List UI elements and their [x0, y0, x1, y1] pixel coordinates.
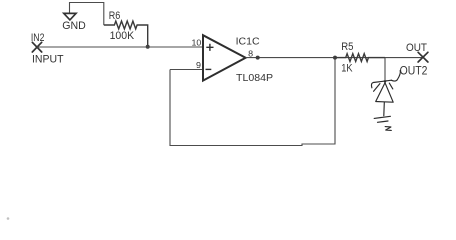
zener diode cathode bar (hand-drawn)	[371, 80, 391, 88]
stray faint mark bottom-left	[7, 217, 10, 220]
ground GND symbol	[64, 13, 76, 20]
pad X OUT	[418, 52, 428, 62]
wire drop to zener diode	[384, 58, 386, 81]
svg-text:R6: R6	[109, 10, 121, 22]
svg-text:100K: 100K	[110, 30, 135, 42]
ground sketch stroke 2	[378, 121, 389, 122]
wire feedback loop (pin 9 down, across, up to output)	[170, 58, 335, 146]
resistor R6	[104, 21, 148, 47]
zener stub wire to OUT2 (hand-drawn)	[391, 70, 400, 81]
wire op-amp pin 9 stub	[170, 69, 203, 71]
svg-text:R5: R5	[341, 41, 353, 53]
junction node (R6 to input wire)	[146, 45, 150, 49]
junction node at pin 8	[256, 56, 260, 60]
svg-text:10: 10	[192, 38, 202, 48]
svg-text:GND: GND	[62, 20, 86, 32]
op-amp IC1C triangle	[203, 35, 246, 80]
op-amp plus input symbol	[206, 44, 213, 51]
svg-text:TL084P: TL084P	[236, 72, 273, 84]
ground sketch stroke 1	[374, 116, 390, 118]
pad X IN2	[32, 42, 41, 52]
wire input net from IN2 to op-amp pin 10	[37, 46, 203, 48]
resistor R5	[335, 54, 385, 62]
wire from GND symbol up and over to R6 left terminal	[70, 3, 104, 26]
junction node at feedback tap	[333, 56, 337, 60]
svg-text:IN2: IN2	[31, 32, 45, 44]
svg-text:INPUT: INPUT	[32, 54, 64, 66]
svg-text:OUT2: OUT2	[400, 66, 428, 78]
svg-text:IC1C: IC1C	[236, 36, 260, 48]
wire output net from pin 8 to OUT pad	[246, 57, 423, 59]
svg-text:9: 9	[196, 60, 201, 70]
svg-text:8: 8	[248, 48, 253, 58]
svg-text:OUT: OUT	[406, 42, 427, 54]
ground sketch squiggle	[385, 127, 391, 131]
op-amp minus input symbol	[206, 68, 212, 70]
svg-text:1K: 1K	[341, 63, 353, 75]
zener lead down	[383, 103, 386, 116]
zener diode triangle (hand-drawn)	[374, 81, 394, 102]
